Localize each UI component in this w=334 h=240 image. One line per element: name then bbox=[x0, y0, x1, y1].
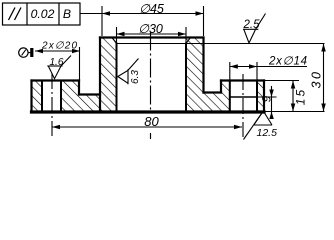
right hole centerline bbox=[242, 74, 244, 137]
left ear left edge bbox=[30, 81, 32, 113]
15 dimension line bbox=[292, 81, 294, 112]
2x dia20 dimension line bbox=[35, 50, 80, 52]
hatch right web bbox=[204, 93, 222, 112]
left web top edge bbox=[79, 93, 100, 95]
dia30 right extension line bbox=[185, 27, 187, 44]
80 dimension line bbox=[52, 126, 242, 128]
svg-text:∅45: ∅45 bbox=[139, 2, 164, 16]
hatch right ear right band bbox=[257, 81, 264, 112]
svg-text:2x∅20: 2x∅20 bbox=[41, 41, 77, 52]
right hole left edge bbox=[229, 81, 231, 113]
right step vertical bbox=[220, 81, 222, 93]
datum circle inner slash bbox=[22, 50, 26, 56]
2x dia20 right arrow bbox=[72, 49, 80, 54]
15 top arrow bbox=[291, 81, 296, 89]
2x dia14 left arrow bbox=[230, 64, 238, 69]
2x dia20 left arrow bbox=[35, 49, 43, 54]
left hole centerline bbox=[51, 73, 53, 136]
dia30 left arrow bbox=[117, 32, 125, 37]
svg-text:∅30: ∅30 bbox=[138, 22, 163, 36]
2x dia14 right extension line bbox=[256, 62, 258, 80]
2x dia20 extension line (down to ear) bbox=[79, 47, 81, 80]
bore right wall bbox=[185, 44, 187, 113]
9 dimension line bbox=[271, 86, 273, 119]
svg-text:15: 15 bbox=[294, 88, 308, 105]
part outline bbox=[32, 38, 265, 113]
hatch hub left wall bbox=[100, 38, 117, 112]
9 bottom arrow (outside, pointing up) bbox=[269, 112, 274, 120]
FCF leader line bbox=[80, 13, 102, 15]
hatch left web bbox=[79, 95, 100, 112]
ear top extension for 15 dim bbox=[264, 80, 299, 82]
svg-text:B: B bbox=[63, 7, 71, 21]
dia30 left extension line bbox=[116, 27, 118, 44]
hub right outer wall bbox=[202, 38, 204, 93]
30 top arrow bbox=[321, 44, 326, 52]
left ear top edge bbox=[32, 79, 80, 81]
svg-text:2x∅14: 2x∅14 bbox=[268, 56, 307, 68]
main axis centerline bbox=[150, 32, 152, 140]
9 top arrow (outside, pointing down) bbox=[269, 90, 274, 98]
dia30 dimension line bbox=[117, 33, 187, 35]
roughness 12.5 symbol (bottom surface) bbox=[244, 111, 273, 140]
right web top edge bbox=[204, 91, 222, 93]
svg-text:80: 80 bbox=[144, 114, 159, 129]
right hole right edge bbox=[256, 81, 258, 113]
feature control frame (parallelism 0.02 B) bbox=[3, 3, 81, 25]
svg-text:6.3: 6.3 bbox=[130, 70, 141, 84]
left step vertical bbox=[78, 81, 80, 95]
2x dia14 dimension line bbox=[230, 66, 307, 68]
svg-text:9: 9 bbox=[262, 95, 274, 102]
30 dimension line bbox=[323, 44, 325, 112]
bore chamfer left diagonal bbox=[112, 38, 117, 44]
bottom edge extension right bbox=[264, 111, 325, 113]
parallelism symbol // bbox=[9, 8, 22, 21]
left hole left edge bbox=[41, 81, 43, 113]
2x dia14 left extension line bbox=[229, 62, 231, 80]
bottom edge bbox=[32, 110, 265, 113]
connector circle to bar bbox=[28, 52, 30, 54]
dia45 right extension line bbox=[203, 6, 205, 36]
dia45 left extension line bbox=[101, 6, 103, 36]
hub top edge bbox=[100, 36, 204, 38]
roughness 2.5 symbol (general, top right) bbox=[243, 14, 266, 44]
left hole right edge bbox=[60, 81, 62, 113]
2x dia14 right arrow bbox=[249, 64, 257, 69]
bore left wall bbox=[116, 44, 118, 113]
right ear top edge bbox=[221, 79, 264, 81]
hub left outer wall bbox=[99, 38, 101, 113]
bore chamfer right diagonal bbox=[186, 38, 191, 44]
hatch left ear right band bbox=[61, 81, 79, 112]
30 bottom arrow bbox=[321, 104, 326, 112]
svg-text:12.5: 12.5 bbox=[257, 127, 278, 139]
hatch hub right wall bbox=[186, 38, 204, 112]
datum circle symbol bbox=[19, 48, 28, 57]
dia30 right arrow bbox=[178, 32, 186, 37]
dia45 left arrow bbox=[102, 11, 110, 16]
svg-text:30: 30 bbox=[310, 70, 324, 89]
dia45 right arrow bbox=[196, 11, 204, 16]
svg-text:1.6: 1.6 bbox=[50, 57, 64, 68]
hatch left ear left band bbox=[32, 81, 43, 112]
80 left arrow bbox=[52, 125, 60, 130]
dia45 dimension line bbox=[102, 13, 204, 15]
right ear right edge bbox=[263, 81, 265, 113]
15 bottom arrow bbox=[291, 104, 296, 112]
datum stop bar bbox=[30, 48, 33, 57]
hatch right ear left band bbox=[221, 81, 230, 112]
roughness 1.6 symbol bbox=[47, 56, 71, 79]
svg-text:0.02: 0.02 bbox=[31, 7, 55, 21]
svg-text:2.5: 2.5 bbox=[243, 19, 261, 31]
roughness 6.3 symbol (bore) bbox=[118, 59, 139, 85]
step line extension for 9 dim bbox=[257, 96, 277, 98]
right hole internal step line bbox=[230, 96, 257, 98]
80 right arrow bbox=[234, 125, 242, 130]
bore chamfer bottom line and 30-dim top extension line bbox=[117, 43, 325, 45]
